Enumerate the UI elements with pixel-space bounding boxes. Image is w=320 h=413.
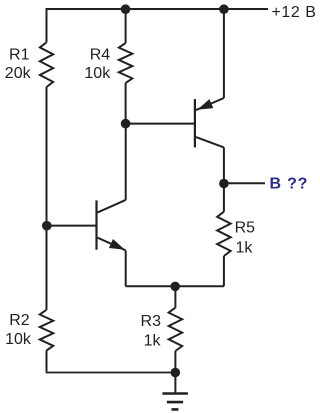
svg-text:R2: R2: [9, 312, 30, 329]
svg-text:10k: 10k: [84, 65, 111, 82]
svg-text:R3: R3: [141, 313, 162, 330]
resistor R1: [40, 42, 53, 87]
wire Q1 emitter vertical: [125, 250, 127, 286]
wire bottom return: [46, 372, 176, 374]
wire left rail lower: [46, 351, 48, 372]
svg-text:20k: 20k: [5, 65, 32, 82]
node J5 output: [219, 179, 229, 189]
transistor Q2 emitter arrow (PNP): [197, 99, 213, 110]
svg-text:R4: R4: [90, 47, 111, 64]
svg-text:1k: 1k: [144, 333, 162, 350]
node J4 left rail / Q1 base: [42, 221, 52, 231]
svg-text:+12 В: +12 В: [272, 4, 317, 21]
wire Q2 base: [126, 123, 195, 125]
node J7 bottom return / ground: [171, 368, 181, 378]
wire top supply rail: [46, 8, 269, 10]
wire emitter node horizontal: [126, 285, 224, 287]
transistor Q2 base bar: [194, 99, 196, 147]
resistor R4: [119, 43, 133, 83]
resistor R2: [40, 310, 54, 351]
node J6 Q1 emitter / R3 / R5: [170, 282, 180, 292]
wire Q2 emitter feed: [223, 9, 225, 98]
wire left rail upper: [46, 8, 48, 42]
svg-text:R5: R5: [235, 220, 256, 237]
wire Q1 base: [47, 225, 97, 227]
transistor Q1 collector lead: [98, 200, 126, 213]
svg-text:10k: 10k: [5, 331, 32, 348]
transistor Q1 emitter arrow (NPN): [109, 239, 125, 250]
wire left rail middle: [46, 87, 48, 310]
transistor Q1 emitter lead: [98, 238, 126, 251]
wire R3 bottom lead: [174, 351, 176, 373]
wire R4 bottom lead to node: [125, 83, 127, 124]
transistor Q2 collector lead: [196, 137, 224, 147]
resistor R3: [169, 308, 183, 351]
transistor Q1 base bar: [95, 200, 97, 249]
wire ground stub: [174, 373, 176, 393]
svg-text:1k: 1k: [236, 239, 254, 256]
wire Q1 collector vertical: [125, 124, 127, 200]
resistor R5: [217, 212, 231, 256]
wire R5 top lead: [223, 184, 225, 212]
transistor Q2 emitter lead: [196, 98, 224, 110]
wire Q2 collector vertical: [223, 147, 225, 183]
node J3 R4 / Q1 collector / Q2 base: [121, 119, 131, 129]
wire R3 top lead: [174, 286, 176, 307]
wire output stub: [224, 182, 265, 184]
wire R5 bottom lead: [223, 256, 225, 286]
node J1 top rail / R4: [121, 4, 131, 14]
ground symbol: [162, 394, 188, 410]
wire R4 top lead: [125, 9, 127, 43]
svg-text:R1: R1: [9, 47, 30, 64]
svg-text:В ??: В ??: [270, 175, 309, 192]
node J2 top rail / Q2 emitter: [219, 4, 229, 14]
